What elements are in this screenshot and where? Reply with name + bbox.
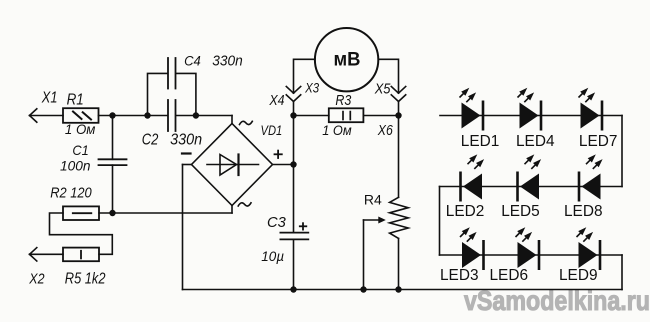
wire AC2 line (C1/R2 node to bridge bottom) [99,212,232,214]
wire X6 to node [398,102,400,116]
resistor R2 [63,206,99,220]
LED LED1 [462,101,485,131]
wire bridge minus to bottom rail [183,165,192,290]
svg-text:LED1: LED1 [461,133,500,150]
wire LED row 2 [440,186,623,188]
wire top line R1 to C2 [99,115,167,117]
svg-text:R3: R3 [335,93,352,109]
LED LED5 [516,172,539,202]
svg-text:C2: C2 [142,132,159,149]
svg-text:LED3: LED3 [440,267,479,284]
svg-text:1 Ом: 1 Ом [65,122,96,137]
svg-text:330n: 330n [212,54,242,70]
connector X4 (socket) [286,95,300,102]
resistor R5 [63,248,99,262]
svg-text:C4: C4 [184,53,201,69]
resistor R3 [294,108,399,122]
node B (C4 left) [144,112,150,118]
connector X6 (socket) [391,95,405,102]
svg-text:100n: 100n [60,158,91,173]
wire LED row 3 [440,254,623,256]
svg-text:10µ: 10µ [261,248,284,264]
node C (C4 right) [193,112,199,118]
potentiometer R4 [390,197,409,238]
svg-text:LED2: LED2 [446,203,485,220]
svg-text:R1: R1 [67,91,84,108]
AC tilde top [240,121,253,124]
svg-text:LED6: LED6 [490,267,529,284]
node G (plus node) [290,161,296,167]
node F (right meter node) [395,112,401,118]
svg-text:X1: X1 [41,89,58,106]
capacitor C3 [280,233,308,290]
minus sign [182,152,191,154]
node E (left meter node) [290,112,296,118]
wire R2 to R5 jog [50,213,113,254]
connector X3 (plug) [286,87,300,94]
wire R4 bottom to rail [398,238,400,289]
svg-text:R5 1k2: R5 1k2 [65,271,106,288]
svg-text:VD1: VD1 [261,122,283,138]
AC tilde bottom [238,203,251,206]
node I (wiper on rail) [360,286,366,292]
svg-text:330n: 330n [170,132,202,149]
svg-text:1 Ом: 1 Ом [322,123,351,138]
resistor R1 [63,108,99,123]
svg-text:R2 120: R2 120 [50,186,91,202]
terminal X2 [30,248,64,261]
wire meter left [294,59,315,93]
capacitor C2 [168,100,176,131]
wire node F down to R4 [398,116,400,198]
svg-text:C3: C3 [267,215,286,231]
bridge rectifier VD1 [192,116,273,214]
wire right bus row1-row2 [621,116,623,187]
svg-text:X5: X5 [374,80,391,97]
wire X4 to node [293,102,295,116]
wire left bus row2-row3 [439,187,441,256]
LED LED4 [520,101,543,131]
LED LED3 [462,240,485,270]
LED LED8 [578,172,601,202]
wire bridge plus to node [273,164,294,166]
svg-text:X2: X2 [28,271,45,288]
wire meter right [378,59,398,93]
LED LED7 [581,101,604,131]
svg-text:LED7: LED7 [579,133,618,150]
svg-text:LED8: LED8 [564,203,603,220]
diode inside VD1 [207,164,259,166]
svg-text:X4: X4 [269,93,285,109]
svg-text:R4: R4 [364,191,382,207]
svg-text:C1: C1 [72,143,88,158]
node J (R4 on rail) [395,286,401,292]
wire C2 to bridge [177,115,232,117]
svg-text:X6: X6 [377,123,393,139]
bottom rail [183,289,623,291]
svg-text:мВ: мВ [334,48,361,70]
LED LED6 [518,240,541,270]
svg-text:LED9: LED9 [559,267,598,284]
svg-text:X3: X3 [304,79,319,95]
capacitor C1 [99,116,127,214]
R4 wiper arrow [364,217,386,290]
wire LED row 1 [440,115,622,117]
LED LED2 [459,172,482,202]
svg-text:LED4: LED4 [516,133,555,150]
svg-text:LED5: LED5 [501,203,540,220]
plus sign [275,151,282,158]
capacitor C4 (parallel branch) [148,58,196,116]
connector X5 (plug) [391,87,405,94]
wire node E down through G to C3 [293,116,295,233]
node D (R2/C1 junction) [109,210,115,216]
node H (C3 on rail) [290,286,296,292]
LED LED9 [579,240,602,270]
C3 plus sign [300,223,307,229]
node A (C1 tap) [109,112,115,118]
terminal X1 [30,109,64,122]
wire right bus row3-rail [621,255,623,290]
millivoltmeter PV1 [315,28,378,91]
